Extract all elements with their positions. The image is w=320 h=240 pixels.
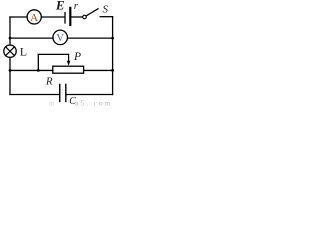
ammeter A circle (27, 10, 41, 24)
junction dot left rail / rheostat (9, 69, 12, 72)
rheostat wiper top bar (38, 53, 68, 55)
svg-text:V: V (56, 33, 64, 44)
wire top-left horizontal to ammeter (10, 16, 27, 18)
voltmeter V circle (53, 30, 67, 45)
lamp L cross diagonal 2 (6, 47, 15, 56)
svg-text:P: P (73, 51, 81, 63)
junction dot left rail / voltmeter (9, 37, 12, 40)
wire rheostat input from left rail (10, 69, 53, 71)
svg-text:r: r (74, 0, 79, 12)
svg-text:a5. com: a5. com (75, 98, 112, 107)
wire left rail upper vertical (9, 17, 11, 45)
lamp L cross diagonal 1 (6, 47, 15, 56)
junction dot wiper (37, 69, 40, 72)
wire ammeter to battery (42, 16, 65, 18)
svg-text:m: m (49, 100, 55, 108)
rheostat wiper arrowhead (67, 61, 71, 66)
lamp L circle (4, 45, 16, 57)
wire bottom rail left of capacitor (10, 94, 59, 96)
wire voltmeter branch right (68, 37, 113, 39)
wire left rail lower vertical (9, 58, 11, 95)
rheostat wiper vertical from junction (37, 54, 39, 70)
junction dot right rail / voltmeter (111, 37, 114, 40)
wire voltmeter branch left (10, 37, 53, 39)
wire bottom rail right of capacitor (66, 94, 112, 96)
svg-text:R: R (45, 75, 53, 87)
switch S pivot circle (83, 15, 87, 19)
capacitor C left plate (59, 84, 61, 101)
switch S lever (86, 9, 98, 16)
wire right rail vertical (112, 17, 114, 95)
svg-text:E: E (55, 0, 65, 12)
svg-text:L: L (20, 45, 27, 59)
junction dot right rail / rheostat (111, 69, 114, 72)
rheostat R box (53, 66, 84, 73)
battery E plate short thick (69, 8, 71, 25)
wire rheostat output to right rail (84, 69, 113, 71)
wire switch to top-right corner (100, 16, 112, 18)
svg-text:S: S (103, 3, 109, 15)
capacitor C right plate (65, 84, 67, 101)
wire battery to switch (72, 16, 83, 18)
rheostat wiper arrow shaft (68, 54, 70, 61)
svg-text:A: A (30, 12, 38, 24)
battery E plate long (64, 13, 66, 23)
